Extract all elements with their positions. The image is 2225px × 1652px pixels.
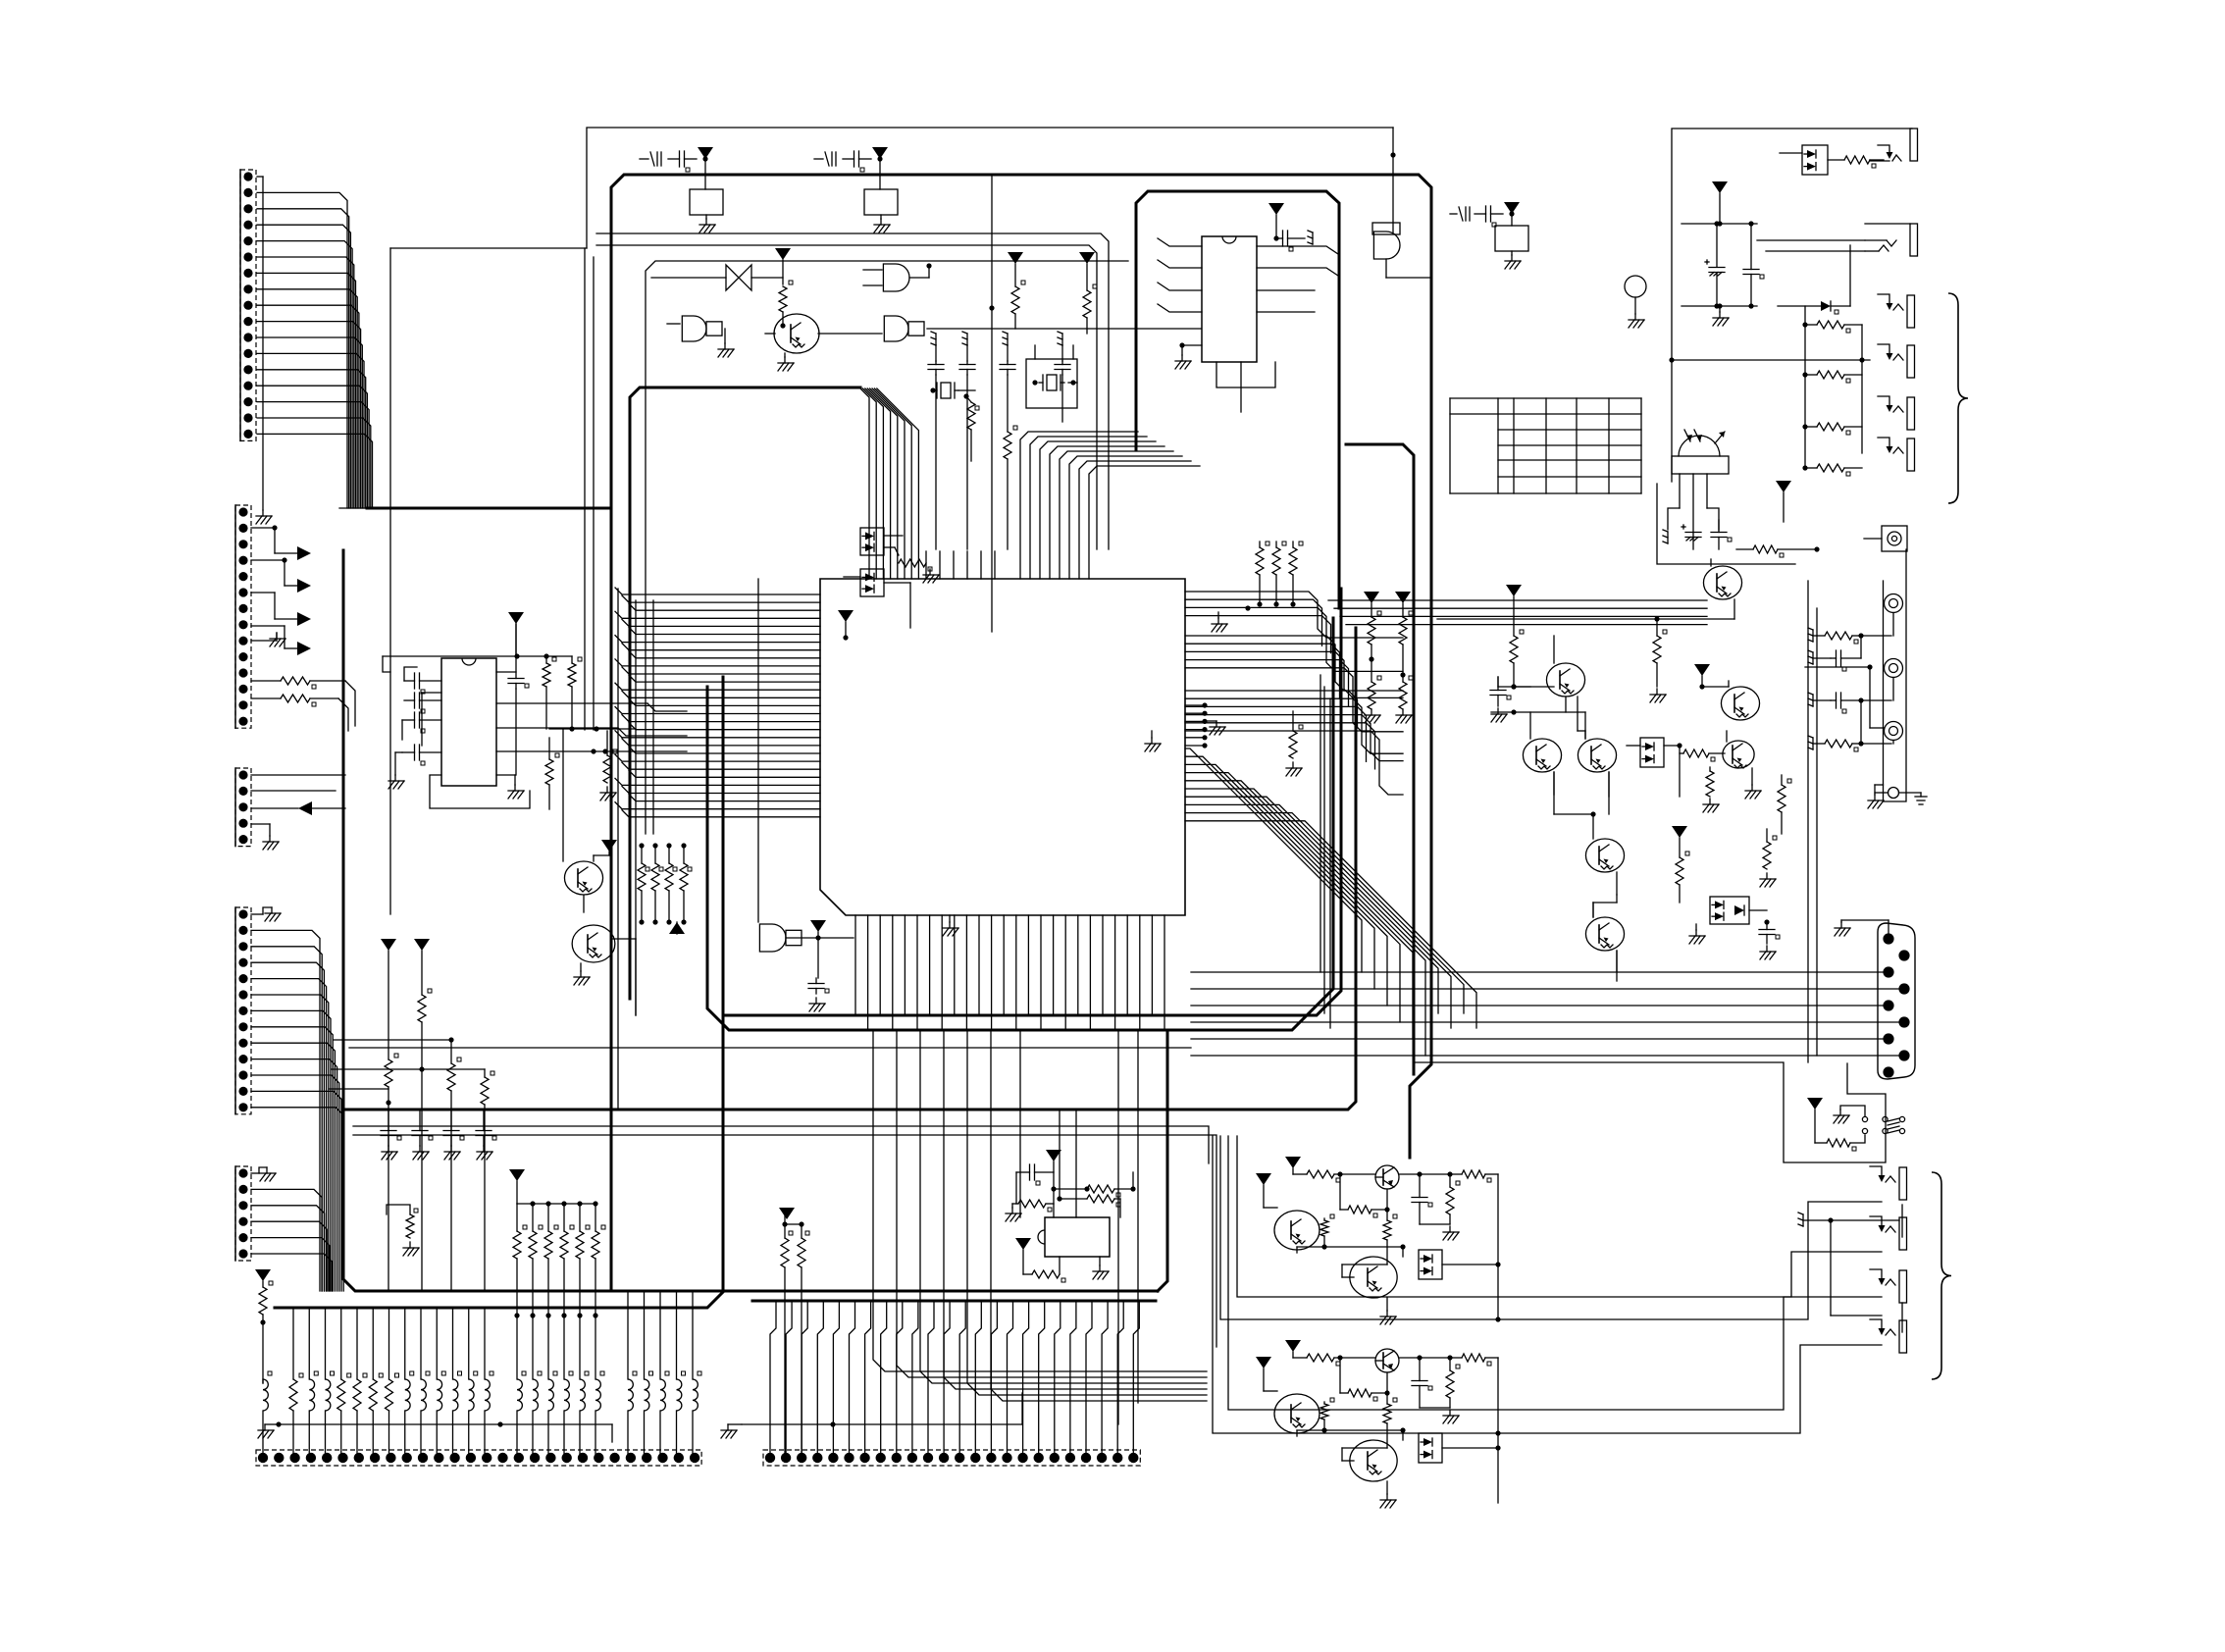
wire RT rail1 <box>1682 221 1757 226</box>
wire bus bottom H2 <box>707 618 1333 1030</box>
transistor Q11 <box>1723 731 1754 768</box>
inductor ladder group3 <box>628 1291 701 1458</box>
resistor R-RM4 <box>1703 767 1719 812</box>
wire MIDI-B box inner <box>1228 1136 1882 1410</box>
wire left thick vertical <box>343 550 1158 1291</box>
gate G4 <box>667 316 734 357</box>
capacitor C-RM4 <box>1808 693 1891 744</box>
wire h 1068 <box>349 1047 1191 1049</box>
wire RM risers <box>1808 581 1817 1062</box>
capacitor MIDI-B C1 <box>1412 1358 1432 1408</box>
capacitor C-RM3 <box>1808 636 1861 671</box>
power MIDI-A V-a <box>1285 1157 1307 1174</box>
wire IR1 box <box>1657 484 1795 564</box>
wire bus bottom H1 <box>723 589 1341 1015</box>
wire RT vline <box>0 0 1 1</box>
power V20 <box>1504 202 1520 226</box>
ground U1b <box>549 726 636 861</box>
power V17 <box>1008 252 1023 286</box>
resistor R-U1d <box>545 738 559 809</box>
wire MIDI-A box outer <box>1220 1136 1882 1319</box>
transistor Q6 <box>1523 712 1561 795</box>
wire bottom bus2 <box>752 1300 1156 1303</box>
connector CN7 <box>763 1450 1140 1466</box>
jack J8 <box>1870 1216 1907 1250</box>
resistor/inductor ladder group1 <box>289 1308 493 1458</box>
wire thin loop C2 <box>646 261 1128 834</box>
gate G3 <box>818 316 1235 341</box>
wire U1 out3 <box>496 728 687 736</box>
capacitor C-row1 <box>381 1110 401 1160</box>
wire MIDI-A box inner <box>1237 1136 1882 1322</box>
wire left risers <box>585 248 594 730</box>
resistor R-V3 <box>259 1281 273 1383</box>
resistor R-RM9 <box>1808 736 1891 751</box>
capacitor C-U1c <box>402 712 441 740</box>
ground MIDI-A <box>1380 1298 1396 1324</box>
wire CN4 fan-out <box>251 930 343 1291</box>
component RCA0 <box>1864 526 1907 551</box>
connector RCA strip <box>1875 549 1906 801</box>
wire bus U100 right long <box>1328 600 1707 625</box>
transistor MIDI-B Q3 <box>1342 1440 1397 1481</box>
component keyboard matrix table <box>1450 398 1641 493</box>
resistor R-V2 <box>418 989 432 1291</box>
ground U1a <box>496 775 524 799</box>
power V4 <box>509 1169 525 1204</box>
wire ladder gnd rail <box>258 1421 612 1442</box>
resistor R-r4 <box>1396 676 1413 723</box>
component ANT1 <box>1625 276 1646 328</box>
connector CN4 <box>235 907 251 1114</box>
capacitor C-G1 <box>808 978 829 1011</box>
transistor Q4 <box>1703 559 1741 619</box>
power MIDI-B V-a <box>1285 1340 1307 1358</box>
wire mid h-pair <box>596 233 1109 549</box>
ground RCA a <box>1868 785 1884 808</box>
transistor Q2 <box>572 925 615 962</box>
component CN-power <box>1883 1116 1905 1133</box>
power V18 <box>1079 252 1095 290</box>
wire CN2 arrows <box>251 525 311 655</box>
wire RT drop <box>0 0 1 1</box>
power MIDI-B V-b <box>1256 1357 1277 1391</box>
capacitor C-U2 <box>1276 231 1313 251</box>
jack J10 <box>1870 1319 1907 1353</box>
power MIDI-A V-b <box>1256 1173 1277 1208</box>
wire U1 out4 <box>496 749 687 753</box>
wire CN7 bus <box>770 1301 1139 1458</box>
resistor MIDI-B R2 <box>1462 1354 1498 1366</box>
ic U1 <box>441 658 496 786</box>
resistor MIDI-A R4 <box>1340 1174 1390 1217</box>
transistor Q8 <box>1585 814 1624 895</box>
capacitor C-T2 <box>814 151 883 172</box>
wire DB9 elbows <box>0 0 1 1</box>
opto MIDI-A PC <box>1419 1250 1501 1279</box>
wire bus U100 top mid <box>926 551 995 579</box>
wire U1 out1 <box>496 656 529 775</box>
wire X2 leads <box>1035 345 1073 359</box>
wire inner border B left <box>630 387 647 999</box>
power V23 <box>1506 585 1522 636</box>
resistor R-r5 <box>1286 711 1303 776</box>
component RL3 <box>1495 226 1528 269</box>
resistor array top-right of U100 <box>1245 542 1303 611</box>
wire second border right <box>1346 444 1414 1074</box>
power V21 <box>1712 181 1728 224</box>
connector DB9 <box>1878 923 1915 1079</box>
capacitor C-T5 <box>1000 332 1015 432</box>
resistor MIDI-B R1 <box>1307 1354 1375 1366</box>
ic U100 main gate array <box>820 579 1185 915</box>
resistor R-pwr <box>1827 1135 1865 1151</box>
resistor R-float <box>387 1205 419 1256</box>
wire bus U100 diag band <box>1185 749 1476 1056</box>
wire U2 pins <box>1158 238 1338 312</box>
ground U2 <box>1175 342 1202 369</box>
elcap CE2 <box>1663 525 1701 543</box>
wire CN4 h1 <box>334 1039 451 1041</box>
wire CN1 bus to main border <box>367 507 611 510</box>
transistor MIDI-A Q1 <box>1375 1165 1462 1189</box>
resistor R-C4b <box>447 1037 461 1291</box>
wire top rail2 <box>390 248 587 914</box>
resistor R-Q1 <box>583 896 585 912</box>
power V22 <box>1776 481 1791 522</box>
resistor MIDI-A R1 <box>1307 1170 1375 1182</box>
resistor MIDI-A R2 <box>1462 1170 1498 1182</box>
capacitor C-T7 <box>1450 206 1503 227</box>
wire RT rail2 <box>1682 303 1757 308</box>
ground G2 <box>943 915 958 936</box>
resistor R-r2 <box>1369 611 1413 682</box>
resistor R-T2 <box>1011 281 1025 329</box>
transistor MIDI-A Q2 <box>1274 1211 1319 1250</box>
resistor MIDI-B R3 <box>1446 1358 1460 1408</box>
wire U3 verticals <box>1060 1110 1076 1217</box>
resistor R-U1a <box>543 656 556 729</box>
capacitor C-IR <box>1711 520 1732 549</box>
power V3 <box>255 1269 271 1287</box>
crystal X2 <box>1026 359 1077 408</box>
crystal X1 <box>930 383 975 399</box>
ground Q2 <box>574 963 590 985</box>
power V15 <box>872 147 888 189</box>
opto PC5 <box>1710 897 1770 925</box>
jack J1 <box>1870 129 1918 161</box>
component RL1 <box>690 189 723 232</box>
jack J7 <box>1870 1166 1907 1200</box>
wire MIDI-A base-link <box>1297 1244 1406 1257</box>
ground DB9 <box>1835 920 1889 936</box>
opto MIDI-B PC <box>1419 1433 1501 1463</box>
component RCA3 <box>1885 722 1903 745</box>
wire CN3 lines + arrow <box>251 775 345 815</box>
ground RM-PC5 <box>1689 924 1705 944</box>
ground CN5 <box>251 1167 276 1181</box>
power V16 <box>775 248 791 284</box>
resistor R-r1 <box>1368 611 1381 682</box>
capacitor C-T3 <box>928 332 944 549</box>
opto PC1 <box>860 528 903 555</box>
resistor MIDI-A R6 <box>1320 1214 1334 1250</box>
capacitor C-row4 <box>476 1110 496 1160</box>
resistor R-C4c <box>481 1069 494 1291</box>
transistor MIDI-A Q3 <box>1342 1257 1397 1298</box>
power V1 <box>381 939 396 1059</box>
wire MIDI-A out-riser <box>1497 1174 1499 1319</box>
wire midi feeds <box>353 1126 1216 1347</box>
resistor R-T1 <box>779 281 793 329</box>
power V2 <box>414 939 430 995</box>
resistor R-U1b <box>568 656 582 732</box>
resistor R-CN2b <box>251 695 348 731</box>
ground xr <box>1212 612 1227 632</box>
wire bus U100 left <box>615 588 820 817</box>
gate G1 <box>758 579 820 952</box>
wire bus U100 bottom long <box>873 1032 1207 1424</box>
wire CN1 fan-out bus <box>257 192 373 508</box>
wire RM rail <box>1437 616 1734 621</box>
resistor R-RM3 <box>1680 746 1725 797</box>
wire tall vertical <box>989 175 994 632</box>
wire RM h1 <box>1491 687 1617 981</box>
opto PC4 <box>1627 738 1682 767</box>
resistor array mid4 <box>638 843 692 934</box>
wire MIDI-B gnd-line <box>1420 1408 1459 1423</box>
ground RCA b <box>1899 793 1928 804</box>
component RL2 <box>864 189 898 232</box>
resistor R-r3 <box>1365 676 1381 723</box>
resistor MIDI-B R5 <box>1383 1398 1397 1448</box>
component SW1 contacts <box>1834 1106 1868 1134</box>
wire MIDI-B out-riser <box>1497 1358 1499 1503</box>
capacitor C-U1b <box>404 693 441 713</box>
ic U2 <box>1202 236 1257 362</box>
capacitor C-T6 <box>1055 332 1070 422</box>
wire Q2 out <box>612 939 636 1015</box>
transistor Q7 <box>1578 731 1616 797</box>
brace BR1 <box>1948 293 1968 503</box>
diode D1 <box>1778 301 1850 314</box>
jack J4 <box>1878 344 1915 378</box>
wire bus U100 bottom <box>855 915 1164 1028</box>
component FL1 bowtie <box>651 265 783 290</box>
resistor array RA2 <box>513 1201 605 1317</box>
wire inner border B top <box>647 387 860 389</box>
resistor R-T4 <box>1004 426 1017 549</box>
ground U100 right <box>1205 721 1225 735</box>
resistor R-RM6 <box>1760 829 1777 887</box>
ground CN3 <box>251 824 279 850</box>
component IR1 arrows <box>1684 430 1725 443</box>
wire outer border left+top+right <box>611 175 1431 1291</box>
power V14 <box>698 147 713 189</box>
resistor R-U3d <box>1023 1257 1065 1282</box>
wire ladder rail <box>275 1292 723 1308</box>
elcap CE1 <box>1705 221 1725 306</box>
resistor R-PC1 <box>895 547 939 583</box>
wire bus vertical x737 <box>722 677 725 1291</box>
power V24 <box>1694 664 1710 687</box>
wire bus U100 top right <box>1020 432 1200 579</box>
wire U1 left <box>422 693 441 746</box>
brace BR2 <box>1932 1172 1951 1379</box>
resistor R-C4a <box>385 1054 398 1291</box>
transistor Q9 <box>1585 903 1624 971</box>
resistor MIDI-B R6 <box>1320 1398 1334 1433</box>
power V19 <box>1268 203 1284 241</box>
resistor R-RM5 <box>1778 775 1791 834</box>
transistor MIDI-B Q2 <box>1274 1394 1319 1433</box>
capacitor C-RM1 <box>1490 677 1530 722</box>
resistor R-U3c <box>1057 1195 1120 1217</box>
wire U1 top rail <box>383 624 572 672</box>
component RCA4 hole <box>1875 788 1899 799</box>
power V5 <box>779 1208 802 1227</box>
wire IR out <box>0 0 1 1</box>
wire U1 loop <box>430 775 530 808</box>
power V13 <box>838 610 854 641</box>
jack J2 <box>1757 224 1918 256</box>
wire DB9 bus <box>1191 972 1900 1056</box>
wire bus B fan <box>860 388 918 579</box>
wire bus bottom second <box>1158 1032 1167 1291</box>
power V11 <box>594 840 617 855</box>
jack J9 <box>1870 1269 1907 1303</box>
wire MIDI-A Q1-emitter <box>1386 1189 1388 1220</box>
ground CN2 <box>251 633 285 646</box>
wire CN4 h2 <box>332 1066 485 1071</box>
transistor Q1 <box>564 855 602 895</box>
capacitor C-U1a <box>404 667 441 694</box>
resistor R-IR <box>1736 545 1820 557</box>
connector CN1 <box>240 170 272 524</box>
capacitor C-U3 <box>1016 1164 1054 1204</box>
resistor R-RM7 <box>1676 852 1689 903</box>
resistor R-CN2a <box>251 677 355 726</box>
power V26 <box>1807 1098 1827 1143</box>
connector CN2 <box>235 505 251 728</box>
component RCA2 <box>1885 659 1903 701</box>
capacitor C-row3 <box>443 1110 464 1160</box>
power V7 <box>1015 1238 1031 1274</box>
resistor R-RM1 <box>1510 630 1524 690</box>
resistor R-RT1 <box>1844 156 1884 168</box>
wire U100 left risers <box>618 589 653 1110</box>
ground RT1 <box>1713 303 1729 326</box>
capacitor C-T1 <box>640 151 708 172</box>
wire power box loop <box>1414 1062 1886 1162</box>
wire CN4 h3 <box>330 1088 388 1090</box>
wire CN5 fan-out <box>251 1189 332 1291</box>
resistor R-U3a <box>1006 1200 1054 1221</box>
gate G5 <box>1372 223 1431 278</box>
resistor R-U3b <box>1054 1172 1136 1197</box>
wire U2 bottom <box>1216 362 1275 412</box>
ground U100 mid <box>1145 731 1161 751</box>
transistor MIDI-B Q1 <box>1375 1349 1462 1372</box>
resistor array RT <box>1802 321 1862 476</box>
inductor ladder first <box>263 1371 272 1458</box>
resistor R-RM2 <box>1650 619 1667 702</box>
wire bus U100 right staircase <box>1185 592 1403 1028</box>
resistor MIDI-A R3 <box>1446 1174 1460 1224</box>
wire RT long rail <box>1669 357 1870 362</box>
resistor MIDI-B R4 <box>1340 1358 1390 1401</box>
wire G1h <box>818 937 854 939</box>
capacitor C-row2 <box>412 1110 433 1160</box>
wire bus H3 <box>345 628 1356 1110</box>
wire MIDI-A gnd-line <box>1420 1224 1459 1240</box>
ground RM-Q11 <box>1745 768 1761 799</box>
wire RT frame <box>1672 129 1912 482</box>
power V12 <box>810 920 826 978</box>
opto PC3 <box>1780 145 1844 175</box>
power V8 <box>1364 592 1379 617</box>
wire border C around U2 <box>1136 191 1339 608</box>
ground U3 gnd <box>1093 1257 1109 1279</box>
connector CN5 <box>235 1166 251 1261</box>
ground MIDI jacks <box>1798 1205 1902 1332</box>
jack J6 <box>1878 438 1915 471</box>
ic U3 <box>1038 1217 1110 1257</box>
wire MIDI-B box outer <box>1213 1136 1882 1436</box>
resistor R-RM8 <box>1808 628 1891 644</box>
inductor ladder group2 <box>517 1316 604 1458</box>
jack J3 <box>1878 294 1915 328</box>
resistor R-X1 <box>966 396 979 461</box>
transistor Q5 <box>1546 636 1584 731</box>
component RCA1 <box>1885 594 1903 637</box>
wire RT bus verts <box>1805 245 1862 468</box>
opto PC2 <box>844 569 910 628</box>
wire IR1 leads <box>1680 474 1707 549</box>
power V10 <box>508 612 524 656</box>
power V25 <box>1672 826 1687 857</box>
wire MIDI-B base-link <box>1297 1427 1406 1440</box>
transistor Q10 <box>1699 681 1759 720</box>
component IR1 dome <box>1672 436 1729 474</box>
wire U1 out2 <box>496 703 687 711</box>
wire CN7 gnd line <box>721 1393 1022 1438</box>
wire U100 pin dots <box>1185 702 1208 748</box>
capacitor C-RM2 <box>1759 922 1780 959</box>
ground MIDI-B <box>1380 1481 1396 1508</box>
wire RCA feed mid <box>1805 664 1884 728</box>
resistor MIDI-A R5 <box>1383 1214 1397 1265</box>
resistor R-bc2 <box>798 1221 809 1458</box>
wire top rail <box>587 128 1396 248</box>
capacitor C-U1d <box>388 745 441 789</box>
resistor R-U1c <box>600 731 617 800</box>
gate G2 <box>863 263 932 291</box>
transistor Q3 <box>765 314 819 371</box>
wire MIDI-B Q1-emitter <box>1386 1372 1388 1404</box>
connector CN6 <box>256 1450 701 1466</box>
power V9 <box>1395 592 1411 617</box>
jack J5 <box>1878 396 1915 430</box>
capacitor C-RT1 <box>1743 224 1764 306</box>
capacitor C-T4 <box>959 332 975 549</box>
power V6 <box>1046 1150 1061 1217</box>
resistor R-bc1 <box>781 1213 793 1458</box>
capacitor MIDI-A C1 <box>1412 1174 1432 1224</box>
connector CN3 <box>235 768 251 847</box>
ground CN4 top <box>251 907 281 921</box>
resistor R-T3 <box>1083 284 1097 334</box>
